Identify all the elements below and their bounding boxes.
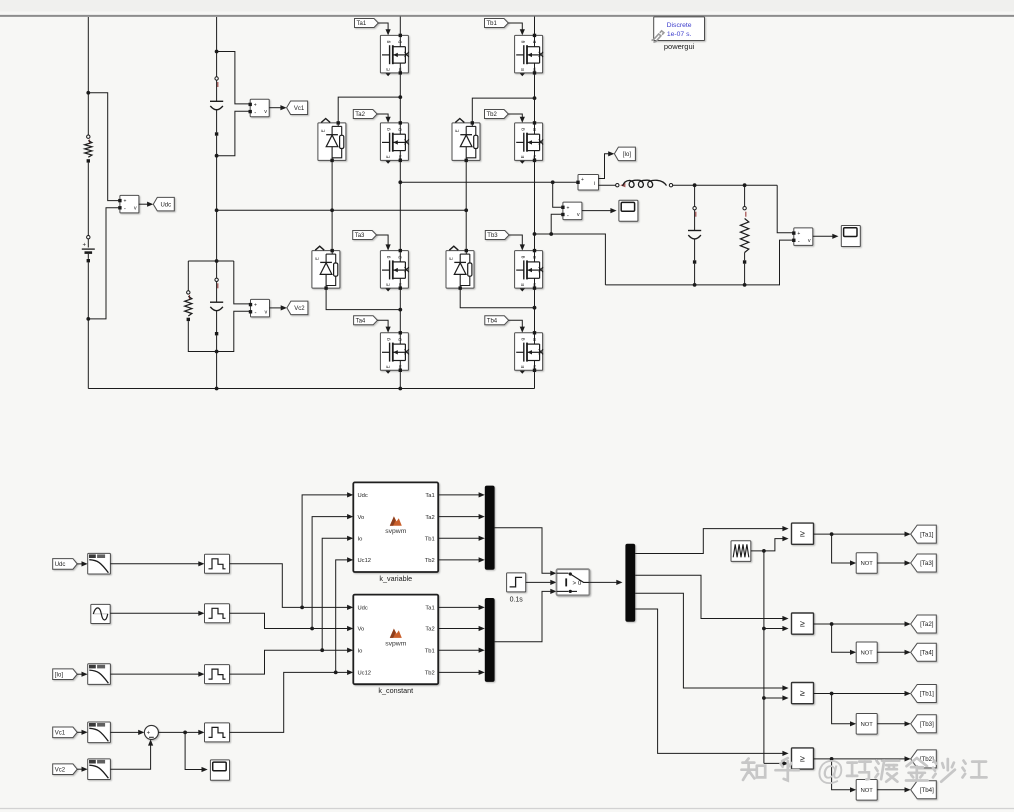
svg-text:Ta4: Ta4 [356,319,366,325]
svg-text:Udc: Udc [358,493,368,499]
svg-text:Tb1: Tb1 [425,537,435,543]
svg-text:0.1s: 0.1s [510,597,524,604]
svg-text:E: E [455,129,460,132]
svg-text:-: - [798,239,800,245]
svg-text:+: + [581,177,584,183]
svg-text:+: + [123,199,126,205]
svg-text:v: v [134,205,137,211]
svg-text:+: + [566,205,569,211]
svg-text:Tb2: Tb2 [425,671,435,677]
svg-text:[Tb3]: [Tb3] [920,721,934,728]
svg-text:Ta3: Ta3 [355,233,365,239]
svg-text:E: E [520,365,525,368]
svg-text:[Io]: [Io] [55,672,64,678]
svg-text:Ta1: Ta1 [425,606,434,612]
svg-text:Tb1: Tb1 [425,648,435,654]
svg-text:Ta1: Ta1 [357,21,367,27]
svg-text:NOT: NOT [861,788,874,794]
svg-text:E: E [449,257,454,260]
svg-text:-: - [567,213,569,219]
svg-text:Tb2: Tb2 [425,558,435,564]
svg-text:E: E [386,68,391,71]
svg-text:E: E [520,155,525,158]
svg-text:1e-07 s.: 1e-07 s. [667,31,692,38]
svg-text:≥: ≥ [800,688,805,698]
svg-text:+: + [82,243,86,249]
svg-text:powergui: powergui [664,42,695,51]
svg-text:Io: Io [358,648,363,654]
svg-text:Vo: Vo [358,627,365,633]
svg-text:Discrete: Discrete [667,22,692,29]
svg-text:[Io]: [Io] [623,152,632,158]
svg-text:v: v [265,309,268,315]
svg-text:≥: ≥ [800,529,805,539]
svg-text:NOT: NOT [861,561,874,567]
svg-text:Ta2: Ta2 [425,515,434,521]
svg-text:[Ta3]: [Ta3] [920,560,934,567]
svg-text:Ta2: Ta2 [355,112,365,118]
svg-text:svpwm: svpwm [385,528,406,535]
svg-text:> 0: > 0 [573,580,582,587]
svg-text:v: v [808,238,811,244]
svg-text:E: E [386,283,391,286]
svg-text:≥: ≥ [800,754,805,764]
svg-text:Vo: Vo [358,515,365,521]
svg-text:Udc: Udc [358,606,368,612]
svg-text:+: + [254,103,257,109]
svg-text:Tb1: Tb1 [487,21,498,27]
svg-text:+: + [147,731,151,737]
svg-text:Tb2: Tb2 [487,112,498,118]
svg-text:i: i [594,181,595,187]
svg-text:Vc2: Vc2 [55,767,66,773]
svg-text:Tb3: Tb3 [487,233,498,239]
svg-text:E: E [520,68,525,71]
svg-text:+: + [254,303,257,309]
svg-text:k_constant: k_constant [378,686,413,695]
svg-text:[Ta4]: [Ta4] [920,650,934,657]
svg-text:[Ta2]: [Ta2] [920,621,934,628]
svg-text:Uc12: Uc12 [358,671,372,677]
svg-text:svpwm: svpwm [385,640,406,647]
svg-text:Vc2: Vc2 [294,306,305,312]
svg-text:v: v [264,109,267,115]
svg-text:-: - [254,110,256,116]
svg-text:Udc: Udc [160,202,171,208]
svg-text:[Tb4]: [Tb4] [920,787,934,794]
svg-text:Ta2: Ta2 [425,627,434,633]
svg-text:-: - [124,207,126,213]
svg-text:@: @ [816,755,844,786]
svg-text:[Ta1]: [Ta1] [920,531,934,538]
svg-text:NOT: NOT [861,651,874,657]
svg-text:Vc1: Vc1 [294,106,305,112]
svg-text:[Tb1]: [Tb1] [920,691,934,698]
svg-text:E: E [386,155,391,158]
svg-text:k_variable: k_variable [379,574,412,583]
svg-text:NOT: NOT [861,722,874,728]
svg-text:Ta1: Ta1 [425,493,434,499]
svg-text:Tb4: Tb4 [487,319,498,325]
svg-text:Uc12: Uc12 [358,558,372,564]
svg-text:E: E [520,283,525,286]
svg-text:-: - [255,311,257,317]
svg-text:Io: Io [358,537,363,543]
svg-text:Vc1: Vc1 [55,731,66,737]
svg-text:E: E [321,129,326,132]
svg-text:E: E [315,257,320,260]
svg-text:≥: ≥ [800,619,805,629]
svg-text:+: + [797,231,800,237]
svg-text:Udc: Udc [55,562,66,568]
svg-text:v: v [577,212,580,218]
svg-text:E: E [386,365,391,368]
